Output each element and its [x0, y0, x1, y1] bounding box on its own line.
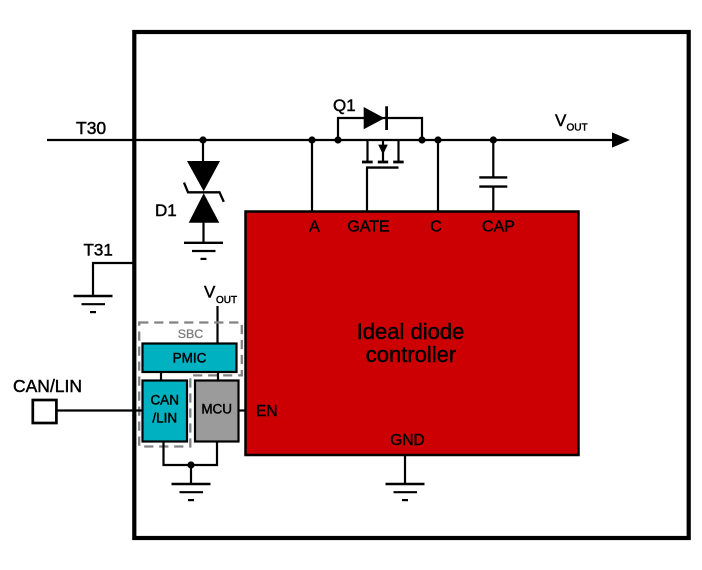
- node Q1 loop left junction: [334, 136, 341, 143]
- svg-text:EN: EN: [256, 403, 278, 420]
- wire T31 stub: [93, 263, 134, 296]
- ground (D1): [184, 243, 223, 259]
- node CAN/LIN connector square: [33, 400, 57, 423]
- svg-text:Ideal diode: Ideal diode: [357, 319, 465, 344]
- wire junction to ground: [190, 465, 192, 484]
- svg-text:V: V: [204, 283, 216, 302]
- wire D1 cathode to ground: [202, 222, 204, 243]
- transistor Q1 (MOSFET): [362, 140, 404, 168]
- label T31: [84, 241, 113, 260]
- wire PMIC to CAN/LIN: [160, 372, 162, 381]
- svg-text:C: C: [430, 219, 442, 236]
- node Q1 loop right junction: [418, 136, 425, 143]
- label SBC: [178, 327, 204, 341]
- label V_OUT (output): [555, 111, 588, 134]
- pin CAP: [482, 219, 515, 236]
- label D1: [155, 201, 177, 220]
- wire V_OUT to PMIC: [216, 306, 218, 344]
- svg-text:SBC: SBC: [178, 327, 204, 341]
- svg-text:Q1: Q1: [333, 96, 356, 115]
- svg-text:controller: controller: [366, 342, 456, 367]
- svg-text:T31: T31: [84, 241, 113, 260]
- wire CAP upper: [492, 140, 494, 177]
- node SBC dashed outline: [139, 323, 242, 447]
- svg-text:MCU: MCU: [201, 402, 232, 417]
- wire T30 main rail: [47, 139, 614, 141]
- wire GND pin: [404, 455, 406, 484]
- svg-text:PMIC: PMIC: [173, 351, 207, 366]
- svg-text:A: A: [309, 219, 320, 236]
- label MCU: [201, 402, 232, 417]
- label T30: [76, 118, 106, 138]
- svg-text:/LIN: /LIN: [152, 411, 177, 426]
- pin EN: [256, 403, 278, 420]
- node A branch junction: [308, 136, 315, 143]
- svg-text:GND: GND: [390, 432, 424, 449]
- op-amp MCU block: [195, 381, 239, 442]
- op-amp PMIC block: [143, 344, 237, 373]
- wire Q1 gate to GATE pin: [366, 168, 368, 212]
- svg-text:GATE: GATE: [347, 219, 389, 236]
- diode Q1 body diode: [364, 106, 387, 130]
- label CAN/LIN input: [13, 376, 82, 396]
- op-amp CAN/LIN block: [143, 381, 188, 442]
- wire CAP lower: [492, 187, 494, 212]
- node CAP branch junction: [490, 136, 497, 143]
- pin C: [430, 219, 442, 236]
- svg-text:OUT: OUT: [216, 295, 237, 306]
- svg-text:CAN/LIN: CAN/LIN: [13, 376, 82, 396]
- node C branch junction: [434, 136, 441, 143]
- pin GATE: [347, 219, 389, 236]
- wire PMIC to MCU: [217, 372, 219, 381]
- node T30/D1 junction: [199, 136, 206, 143]
- wire EN: [239, 409, 247, 411]
- svg-text:CAN: CAN: [150, 393, 179, 408]
- label Ideal diode controller: [357, 319, 465, 367]
- arrow V_OUT output: [612, 132, 630, 147]
- diode D1 (bidirectional TVS): [184, 161, 224, 223]
- wire CAN/LIN input: [57, 409, 142, 411]
- wire A pin: [311, 140, 313, 212]
- op-amp U1 ideal diode controller block: [246, 212, 579, 456]
- node ground bus junction: [187, 461, 194, 468]
- svg-text:V: V: [555, 111, 567, 130]
- ground (T31): [74, 296, 113, 312]
- svg-text:CAP: CAP: [482, 219, 515, 236]
- wire D1 anode: [202, 140, 204, 163]
- wire Q1 body-diode loop: [338, 118, 422, 140]
- pin A: [309, 219, 320, 236]
- label Q1: [333, 96, 356, 115]
- ground (controller GND): [386, 484, 425, 500]
- label PMIC: [173, 351, 207, 366]
- ground (SBC/MCU): [172, 484, 211, 500]
- label V_OUT (PMIC supply): [204, 283, 237, 307]
- label CAN/LIN block: [150, 393, 179, 426]
- svg-text:OUT: OUT: [567, 123, 588, 134]
- svg-text:T30: T30: [76, 118, 106, 138]
- frame (system boundary box): [134, 32, 688, 538]
- pin GND: [390, 432, 424, 449]
- wire C pin: [437, 140, 439, 212]
- svg-text:D1: D1: [155, 201, 177, 220]
- wire CAN/LIN to ground bus: [164, 442, 218, 466]
- capacitor C (output cap): [479, 177, 507, 186]
